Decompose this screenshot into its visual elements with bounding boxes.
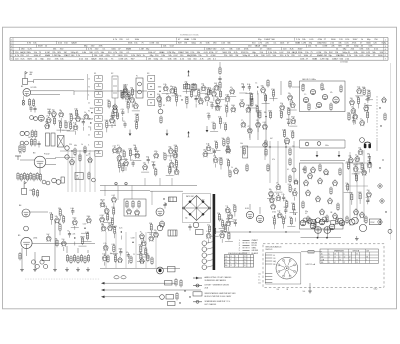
svg-text:75: 75 bbox=[279, 110, 281, 112]
table row text entries bbox=[14, 38, 387, 61]
svg-text:1: 1 bbox=[385, 39, 386, 41]
circle right bbox=[388, 229, 392, 233]
svg-text:56k: 56k bbox=[222, 138, 225, 140]
svg-text:25: 25 bbox=[133, 254, 135, 256]
wire x266 bbox=[265, 94, 267, 140]
dashed line x377 bbox=[376, 96, 378, 140]
arrow A7 bbox=[369, 158, 372, 164]
svg-text:5600: 5600 bbox=[151, 162, 155, 164]
box BO1 bbox=[168, 267, 176, 272]
svg-text:18: 18 bbox=[244, 256, 246, 258]
svg-text:8.2k: 8.2k bbox=[247, 84, 250, 86]
wire color legend bbox=[239, 239, 259, 255]
res column RC (R41-R47) bbox=[66, 254, 89, 264]
svg-text:6AQ8: 6AQ8 bbox=[100, 199, 104, 202]
ground row G1 bbox=[20, 267, 90, 272]
mid right fill bbox=[227, 137, 298, 185]
svg-text:1k: 1k bbox=[231, 167, 233, 169]
svg-text:68p: 68p bbox=[285, 200, 288, 202]
svg-text:33p: 33p bbox=[305, 211, 308, 213]
circle small CS1 bbox=[24, 226, 29, 231]
svg-text:33p: 33p bbox=[117, 153, 120, 155]
res right of CRT bbox=[301, 251, 322, 253]
svg-text:56k: 56k bbox=[101, 224, 104, 226]
svg-text:6.8k: 6.8k bbox=[218, 117, 221, 119]
svg-text:15k: 15k bbox=[258, 273, 261, 275]
svg-text:18: 18 bbox=[334, 254, 336, 256]
svg-text:BLAUW: BLAUW bbox=[252, 252, 259, 255]
svg-text:8.2k: 8.2k bbox=[288, 184, 291, 186]
svg-text:12AU7: 12AU7 bbox=[121, 163, 126, 166]
arrow A5 bbox=[316, 151, 319, 157]
svg-text:45: 45 bbox=[321, 254, 323, 256]
svg-text:90V: 90V bbox=[178, 42, 182, 44]
svg-text:0.5M: 0.5M bbox=[85, 232, 89, 234]
svg-text:33p: 33p bbox=[185, 218, 188, 220]
label B3 bbox=[33, 153, 50, 156]
osc cluster C bbox=[239, 83, 277, 139]
svg-text:68p: 68p bbox=[367, 154, 370, 156]
svg-text:310: 310 bbox=[58, 208, 61, 210]
svg-text:2.2k: 2.2k bbox=[281, 194, 284, 196]
svg-text:330: 330 bbox=[273, 264, 276, 266]
svg-text:56: 56 bbox=[244, 259, 246, 261]
svg-text:6BA6: 6BA6 bbox=[45, 54, 51, 57]
svg-text:470: 470 bbox=[19, 153, 22, 155]
svg-text:310: 310 bbox=[350, 98, 353, 100]
svg-text:75: 75 bbox=[67, 231, 69, 233]
svg-text:150: 150 bbox=[273, 258, 276, 260]
svg-text:33: 33 bbox=[339, 259, 341, 261]
power wire bbox=[301, 233, 342, 238]
res R50 bbox=[246, 164, 248, 173]
svg-text:75: 75 bbox=[173, 86, 175, 88]
resistor R7 R8 bbox=[31, 130, 37, 139]
box BB1 bbox=[196, 230, 204, 235]
filter box F1 bbox=[136, 78, 143, 98]
svg-text:180: 180 bbox=[58, 223, 61, 225]
svg-text:6AQ8: 6AQ8 bbox=[71, 41, 77, 44]
svg-text:0.1: 0.1 bbox=[212, 122, 214, 124]
svg-text:8k2: 8k2 bbox=[202, 200, 205, 202]
svg-text:56: 56 bbox=[230, 256, 232, 258]
CRT dashed enclosure bbox=[263, 244, 384, 287]
svg-text:47: 47 bbox=[131, 160, 133, 162]
svg-text:470k: 470k bbox=[154, 151, 158, 153]
bus y268 bbox=[100, 268, 180, 270]
svg-text:FL: FL bbox=[136, 75, 138, 77]
svg-text:ZWART: ZWART bbox=[252, 239, 259, 242]
svg-text:12AU7: 12AU7 bbox=[332, 58, 339, 61]
svg-text:10k: 10k bbox=[169, 160, 172, 162]
resistor R12 bbox=[122, 91, 124, 100]
svg-text:4.7k: 4.7k bbox=[121, 109, 124, 111]
svg-text:560: 560 bbox=[130, 88, 133, 90]
dot D1 bbox=[377, 140, 387, 213]
svg-text:12AU7: 12AU7 bbox=[178, 51, 185, 54]
svg-text:0.02: 0.02 bbox=[76, 178, 79, 180]
svg-text:470k: 470k bbox=[197, 89, 201, 91]
svg-text:27: 27 bbox=[174, 159, 176, 161]
svg-text:0.5M: 0.5M bbox=[282, 129, 286, 131]
wire x258 bbox=[257, 93, 259, 140]
IF module strip S12 bbox=[148, 76, 155, 106]
svg-text:VERBINDING MET AARDE: VERBINDING MET AARDE bbox=[205, 279, 227, 282]
IF transistor TS1 bbox=[123, 87, 128, 94]
sound IF box M1 bbox=[300, 79, 346, 112]
tube B5 big bbox=[21, 237, 95, 256]
svg-text:2.2k: 2.2k bbox=[130, 95, 133, 97]
svg-text:82: 82 bbox=[163, 105, 165, 107]
svg-text:UL84: UL84 bbox=[33, 238, 37, 240]
svg-text:56k: 56k bbox=[216, 97, 219, 99]
svg-text:330k: 330k bbox=[119, 249, 123, 251]
svg-text:4.7k: 4.7k bbox=[207, 113, 210, 115]
ovals OV1 bbox=[114, 276, 126, 279]
svg-text:5600: 5600 bbox=[47, 109, 51, 111]
svg-text:250: 250 bbox=[184, 82, 187, 84]
svg-text:250: 250 bbox=[52, 117, 55, 119]
frame osc box M3 bbox=[300, 163, 344, 229]
xdiamond X1 bbox=[377, 183, 382, 188]
svg-text:6BA6: 6BA6 bbox=[312, 58, 318, 61]
svg-text:1.2M: 1.2M bbox=[167, 52, 172, 54]
svg-text:27: 27 bbox=[344, 262, 346, 264]
CB2 label bbox=[374, 288, 378, 290]
svg-text:47: 47 bbox=[220, 219, 222, 221]
svg-text:LAST 12 mA: LAST 12 mA bbox=[306, 263, 316, 266]
svg-text:1.2M: 1.2M bbox=[301, 42, 306, 44]
svg-text:B4: B4 bbox=[19, 205, 21, 207]
svg-text:2.2k: 2.2k bbox=[113, 146, 116, 148]
svg-text:350V: 350V bbox=[353, 39, 358, 41]
wires WL2 bbox=[22, 220, 88, 267]
svg-text:IF3: IF3 bbox=[147, 73, 149, 75]
svg-text:6: 6 bbox=[11, 55, 12, 57]
antenna AE1 bbox=[22, 72, 27, 85]
svg-text:18k: 18k bbox=[59, 110, 62, 112]
svg-text:0.05: 0.05 bbox=[272, 217, 275, 219]
svg-text:27: 27 bbox=[166, 94, 168, 96]
svg-text:1M: 1M bbox=[64, 52, 67, 54]
dark box DB1 bbox=[169, 197, 177, 202]
svg-text:47k: 47k bbox=[330, 92, 333, 94]
svg-text:47: 47 bbox=[123, 121, 125, 123]
svg-text:56: 56 bbox=[356, 262, 358, 264]
svg-text:3.9k: 3.9k bbox=[146, 156, 149, 158]
svg-text:90V: 90V bbox=[338, 46, 342, 48]
svg-text:50: 50 bbox=[88, 127, 90, 129]
svg-text:5: 5 bbox=[11, 52, 12, 54]
svg-text:0.5: 0.5 bbox=[258, 279, 260, 281]
transistor TS20 bbox=[159, 220, 165, 228]
chain at 160 bbox=[158, 100, 165, 125]
rectifier circles GR1 GR2 bbox=[315, 227, 331, 234]
svg-text:5600: 5600 bbox=[358, 192, 362, 194]
svg-text:STROOM: STROOM bbox=[353, 251, 360, 253]
svg-text:7: 7 bbox=[385, 58, 386, 60]
svg-text:WEERSTANDEN GEMETEN MET EEN: WEERSTANDEN GEMETEN MET EEN bbox=[205, 292, 237, 295]
big transistors TS30 TS31 bbox=[245, 204, 264, 223]
wire from AE1 bbox=[28, 80, 84, 83]
svg-text:90V: 90V bbox=[57, 52, 61, 54]
svg-text:22k: 22k bbox=[258, 282, 261, 284]
svg-text:120: 120 bbox=[225, 262, 228, 264]
svg-text:27: 27 bbox=[241, 120, 243, 122]
svg-text:120: 120 bbox=[277, 211, 280, 213]
svg-text:250: 250 bbox=[154, 168, 157, 170]
svg-text:10k: 10k bbox=[358, 147, 361, 149]
svg-text:12AU7: 12AU7 bbox=[64, 54, 71, 57]
svg-text:0.1: 0.1 bbox=[287, 169, 289, 171]
svg-text:0.1: 0.1 bbox=[117, 145, 119, 147]
svg-text:68p: 68p bbox=[261, 85, 264, 87]
lower-left cluster I bbox=[46, 208, 91, 251]
coil pair L5 bbox=[0, 0, 1, 1]
svg-text:5: 5 bbox=[385, 52, 386, 54]
svg-text:250: 250 bbox=[293, 210, 296, 212]
svg-text:0.5M: 0.5M bbox=[45, 52, 50, 54]
svg-text:120: 120 bbox=[64, 121, 67, 123]
svg-text:470k: 470k bbox=[272, 211, 276, 213]
svg-text:0.05: 0.05 bbox=[263, 122, 266, 124]
svg-text:1k: 1k bbox=[180, 95, 182, 97]
svg-text:10k: 10k bbox=[240, 143, 243, 145]
svg-text:4k7: 4k7 bbox=[270, 138, 273, 140]
svg-text:180: 180 bbox=[108, 223, 111, 225]
bolt arrow TP1 bbox=[187, 70, 189, 76]
svg-text:300: 300 bbox=[30, 72, 33, 74]
svg-text:250: 250 bbox=[263, 94, 266, 96]
box with X TB2 bbox=[58, 136, 65, 148]
svg-text:500: 500 bbox=[303, 291, 306, 293]
svg-text:45: 45 bbox=[230, 87, 232, 89]
svg-text:15k: 15k bbox=[139, 252, 142, 254]
feed cluster P bbox=[160, 278, 191, 306]
svg-text:4.7k: 4.7k bbox=[124, 159, 127, 161]
svg-text:4.7k: 4.7k bbox=[103, 243, 106, 245]
svg-text:47: 47 bbox=[230, 259, 232, 261]
svg-text:150: 150 bbox=[201, 84, 204, 86]
svg-text:15k: 15k bbox=[49, 213, 52, 215]
svg-text:1.2M: 1.2M bbox=[191, 39, 196, 41]
svg-text:6BA6: 6BA6 bbox=[135, 113, 139, 116]
svg-text:33p: 33p bbox=[212, 227, 215, 229]
svg-text:5600: 5600 bbox=[291, 203, 295, 205]
svg-text:18k: 18k bbox=[269, 189, 272, 191]
label B4 bbox=[19, 205, 21, 207]
CRT pin rows bbox=[258, 253, 301, 284]
svg-text:SCHEMA 21TX310A: SCHEMA 21TX310A bbox=[180, 33, 199, 36]
label box LB1 bbox=[75, 173, 83, 181]
svg-text:310: 310 bbox=[139, 245, 142, 247]
svg-text:10k: 10k bbox=[189, 90, 192, 92]
resistor R13 bbox=[128, 91, 130, 100]
svg-text:7: 7 bbox=[11, 58, 12, 60]
headphone jack J1 bbox=[364, 142, 371, 148]
svg-text:22: 22 bbox=[334, 257, 336, 259]
svg-text:6AQ8: 6AQ8 bbox=[20, 51, 26, 54]
label near AE1 bbox=[30, 72, 33, 76]
svg-text:6AQ8: 6AQ8 bbox=[112, 225, 116, 228]
svg-text:47: 47 bbox=[248, 126, 250, 128]
label B5 bbox=[18, 235, 37, 240]
svg-text:4: 4 bbox=[385, 49, 386, 51]
CRT connector bar bbox=[213, 194, 216, 270]
legend notes bbox=[193, 276, 236, 306]
circle CO1 bbox=[157, 225, 163, 231]
svg-text:68p: 68p bbox=[169, 146, 172, 148]
svg-text:120: 120 bbox=[362, 168, 365, 170]
svg-text:47: 47 bbox=[334, 262, 336, 264]
svg-text:4.7k: 4.7k bbox=[347, 112, 350, 114]
svg-text:27: 27 bbox=[271, 202, 273, 204]
svg-text:0.5M: 0.5M bbox=[119, 59, 124, 61]
svg-text:6BA6: 6BA6 bbox=[159, 51, 165, 54]
svg-text:100k: 100k bbox=[128, 149, 132, 151]
svg-text:CB-2: CB-2 bbox=[374, 288, 378, 290]
svg-text:8.2k: 8.2k bbox=[174, 145, 177, 147]
audio vertical wires bbox=[106, 232, 156, 268]
svg-text:0.25: 0.25 bbox=[357, 86, 360, 88]
svg-text:45: 45 bbox=[212, 149, 214, 151]
svg-text:0.5M: 0.5M bbox=[100, 215, 104, 217]
svg-text:3.9k: 3.9k bbox=[157, 94, 160, 96]
svg-text:0.5M: 0.5M bbox=[211, 55, 216, 57]
svg-text:AANSLUITING OP HET CHASSIS: AANSLUITING OP HET CHASSIS bbox=[205, 276, 233, 279]
feed line 2 bbox=[101, 289, 201, 292]
cluster right of bar M bbox=[217, 204, 237, 230]
feed line 3 bbox=[101, 296, 160, 299]
svg-text:47: 47 bbox=[353, 112, 355, 114]
cluster H small bbox=[19, 137, 41, 155]
AGC cluster S bbox=[203, 138, 231, 171]
coil circles L2a L2b bbox=[20, 131, 29, 135]
marks near AE2 bbox=[30, 188, 39, 198]
loudspeaker connector CN1 bbox=[202, 241, 213, 270]
svg-text:8.2k: 8.2k bbox=[73, 123, 76, 125]
tube voltage table bbox=[320, 249, 378, 264]
svg-text:3.9k: 3.9k bbox=[76, 114, 79, 116]
video cluster J bbox=[112, 145, 141, 173]
svg-text:1M: 1M bbox=[346, 46, 349, 48]
svg-text:220: 220 bbox=[122, 150, 125, 152]
svg-text:B3: B3 bbox=[33, 153, 35, 155]
bolt arrow TP2 bbox=[187, 131, 189, 137]
svg-text:0.5M: 0.5M bbox=[131, 238, 135, 240]
svg-text:6BA6: 6BA6 bbox=[226, 218, 230, 221]
svg-text:1M: 1M bbox=[184, 42, 187, 44]
svg-text:PCL82: PCL82 bbox=[44, 154, 50, 156]
svg-text:90: 90 bbox=[88, 111, 90, 113]
wire grid from B1 bbox=[31, 91, 147, 95]
svg-text:6AQ8: 6AQ8 bbox=[255, 45, 261, 48]
svg-text:DE MET * GEMERKTE DELEN: DE MET * GEMERKTE DELEN bbox=[205, 285, 230, 287]
svg-text:SPANNINGEN GEMETEN T.O.V.: SPANNINGEN GEMETEN T.O.V. bbox=[205, 300, 231, 303]
svg-text:22: 22 bbox=[88, 103, 90, 105]
svg-text:3.9k: 3.9k bbox=[280, 103, 283, 105]
xdiamond X2 bbox=[379, 198, 384, 203]
svg-text:470k: 470k bbox=[69, 113, 73, 115]
svg-text:3.9k: 3.9k bbox=[276, 194, 279, 196]
sync box M4 bbox=[124, 199, 146, 216]
svg-text:1k: 1k bbox=[84, 112, 86, 114]
svg-text:33p: 33p bbox=[289, 217, 292, 219]
svg-text:27: 27 bbox=[46, 116, 48, 118]
svg-text:0.02: 0.02 bbox=[112, 195, 115, 197]
res R39 bbox=[88, 172, 96, 182]
svg-text:1.2M: 1.2M bbox=[52, 55, 57, 57]
cap C1 bbox=[29, 106, 32, 113]
svg-text:1.2M: 1.2M bbox=[223, 224, 227, 226]
svg-text:6.8k: 6.8k bbox=[112, 244, 115, 246]
ground G5 bbox=[355, 236, 359, 241]
sound cluster E bbox=[347, 86, 373, 126]
tube B3 (PCL82) bbox=[20, 156, 56, 175]
svg-text:6AQ8: 6AQ8 bbox=[80, 236, 84, 239]
svg-text:3: 3 bbox=[11, 46, 12, 48]
svg-text:500p: 500p bbox=[113, 254, 117, 256]
svg-text:150: 150 bbox=[62, 239, 65, 241]
svg-text:1.2M: 1.2M bbox=[292, 189, 296, 191]
svg-text:22k: 22k bbox=[154, 230, 157, 232]
svg-text:6: 6 bbox=[385, 55, 386, 57]
svg-text:1k: 1k bbox=[110, 253, 112, 255]
svg-text:47: 47 bbox=[207, 225, 209, 227]
video cluster K bbox=[141, 145, 179, 177]
svg-text:1k: 1k bbox=[163, 152, 165, 154]
trimmer group TG1 bbox=[31, 257, 49, 269]
svg-text:EL84: EL84 bbox=[245, 208, 249, 210]
svg-text:0.02: 0.02 bbox=[68, 121, 71, 123]
svg-text:27: 27 bbox=[235, 259, 237, 261]
driver cluster H2 bbox=[65, 145, 92, 165]
svg-text:1.2M: 1.2M bbox=[139, 49, 144, 51]
svg-text:330k: 330k bbox=[291, 117, 295, 119]
svg-text:310: 310 bbox=[134, 121, 137, 123]
ground arrow GA2 bbox=[166, 130, 169, 136]
CRT labels bbox=[277, 289, 289, 291]
svg-text:90V: 90V bbox=[329, 52, 333, 54]
svg-text:6B: 6B bbox=[366, 257, 368, 259]
svg-text:180: 180 bbox=[226, 159, 229, 161]
svg-text:310: 310 bbox=[321, 257, 324, 259]
svg-text:6.8k: 6.8k bbox=[71, 208, 74, 210]
circle top right bbox=[360, 138, 365, 143]
svg-text:350V: 350V bbox=[136, 55, 141, 57]
svg-text:6.8k: 6.8k bbox=[365, 111, 368, 113]
svg-text:BUISVOLTMETER 20.000 OHM/V: BUISVOLTMETER 20.000 OHM/V bbox=[205, 296, 233, 298]
svg-text:120: 120 bbox=[256, 120, 259, 122]
svg-text:500p: 500p bbox=[210, 102, 214, 104]
fold line bbox=[390, 63, 392, 240]
svg-text:220: 220 bbox=[366, 96, 369, 98]
svg-text:100k: 100k bbox=[105, 120, 109, 122]
IF amp cluster A bbox=[157, 82, 212, 109]
svg-text:45: 45 bbox=[88, 135, 90, 137]
arrow A6 bbox=[338, 151, 341, 157]
svg-text:150: 150 bbox=[287, 107, 290, 109]
svg-text:100k: 100k bbox=[233, 219, 237, 221]
svg-text:56: 56 bbox=[356, 254, 358, 256]
svg-text:0.5M: 0.5M bbox=[323, 46, 328, 48]
svg-text:15: 15 bbox=[88, 79, 90, 81]
CRT socket bbox=[276, 257, 298, 279]
res chain R20 bbox=[218, 62, 221, 90]
label B1 bbox=[21, 86, 36, 89]
svg-text:330k: 330k bbox=[111, 207, 115, 209]
svg-text:47k: 47k bbox=[272, 159, 275, 161]
